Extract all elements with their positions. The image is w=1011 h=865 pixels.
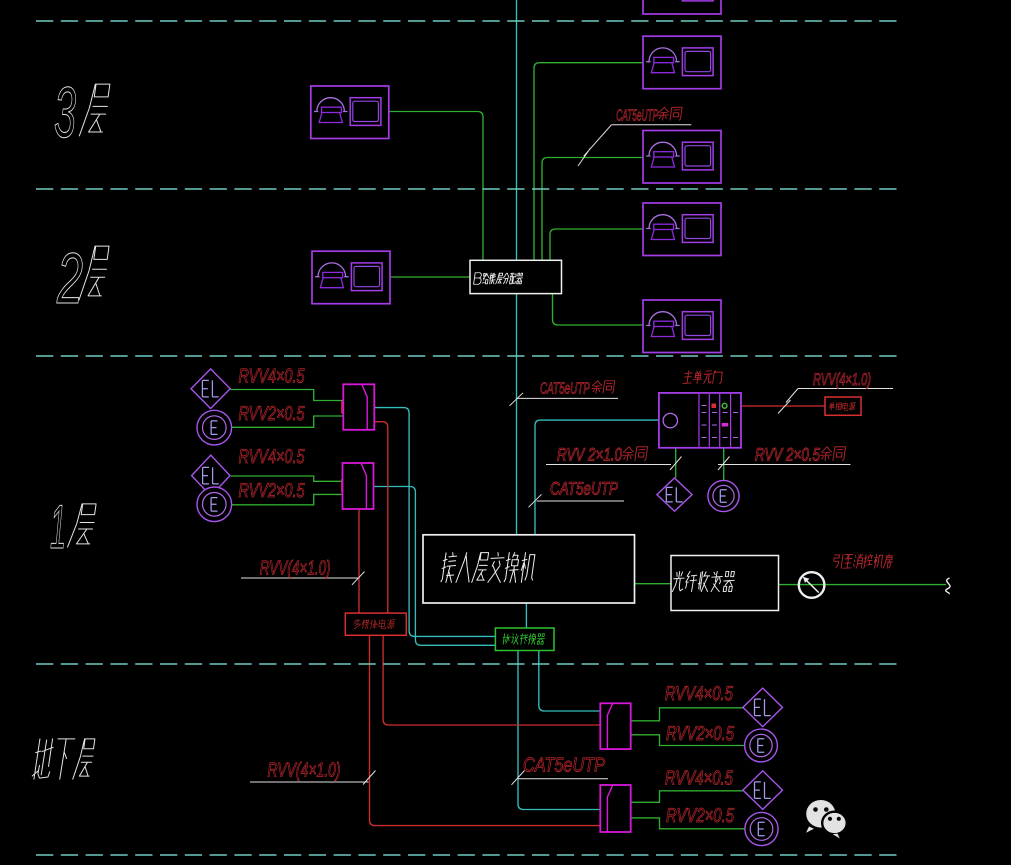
wire red media power box to basement box B1 <box>383 635 600 725</box>
svg-text:1: 1 <box>50 493 66 562</box>
wire red media power box to basement box B2 <box>370 635 601 825</box>
svg-text:RVV2×0.5: RVV2×0.5 <box>239 403 306 425</box>
svg-text:CAT5eUTP: CAT5eUTP <box>540 381 590 398</box>
outlet R2 (phone + data socket) <box>643 36 721 88</box>
junction box J1 <box>343 384 374 430</box>
leader for RVV(4x1.0) door label <box>778 389 893 414</box>
power box S1 (single phase power) <box>825 397 861 415</box>
svg-text:RVV(4×1.0): RVV(4×1.0) <box>268 760 341 782</box>
leader for RVV(4x1.0) 1F label <box>241 572 365 585</box>
distributor box U1 (B road floor distributor) <box>470 260 562 293</box>
svg-text:2: 2 <box>56 239 83 319</box>
red stub at J1 left <box>341 401 343 414</box>
wire cyan from door station U2 to switch box <box>535 420 659 535</box>
svg-text:3: 3 <box>54 73 76 153</box>
svg-text:RVV4×0.5: RVV4×0.5 <box>665 767 734 789</box>
leader for CAT5eUTP label 1F trunk <box>510 393 619 406</box>
svg-text:CAT5eUTP: CAT5eUTP <box>550 479 618 499</box>
junction box J2 <box>343 463 374 509</box>
access layer switch box U3 <box>423 535 635 603</box>
wire green EL2 to junction box J2 <box>231 476 343 481</box>
svg-text:RVV4×0.5: RVV4×0.5 <box>239 366 306 388</box>
label main unit door <box>683 371 693 384</box>
wire red junction box J2 down to media power box M1 <box>358 509 360 613</box>
wire cyan switch box to protocol converter <box>525 603 527 628</box>
floor separator dashed line 5 <box>36 854 900 856</box>
wire red door station to power box S1 <box>741 405 825 407</box>
svg-text:RVV4×0.5: RVV4×0.5 <box>239 446 306 468</box>
E symbol C4 <box>745 729 778 762</box>
floor separator dashed line 1 <box>36 20 900 22</box>
svg-text:CAT5eUTP: CAT5eUTP <box>523 755 606 777</box>
EL symbol D4 <box>743 688 783 727</box>
leader for CAT5eUTP label 1F door wire <box>529 494 625 507</box>
wire green E1 to junction box J1 <box>232 416 343 427</box>
svg-text:RVV 2×1.0: RVV 2×1.0 <box>557 445 622 465</box>
wire green switch box to fiber transceiver <box>635 583 672 585</box>
wire green basement box B2 to E5 <box>631 818 745 829</box>
wire cyan protocol converter to basement box B2 <box>518 651 600 810</box>
fiber transceiver box U4 <box>671 556 779 611</box>
E symbol C1 <box>197 410 232 445</box>
svg-text:RVV2×0.5: RVV2×0.5 <box>239 480 306 502</box>
3F outlet (phone + data socket) <box>311 86 389 139</box>
leader for CAT5eUTP basement label <box>512 771 609 785</box>
wire green outlet 3F to distributor <box>389 112 483 261</box>
wire green distributor up to outlet R4 <box>550 229 643 260</box>
svg-text:RVV4×0.5: RVV4×0.5 <box>665 683 734 705</box>
wire cyan from junction box J2 down to protocol converter <box>374 487 495 646</box>
wire green door station to EL3 <box>675 448 677 478</box>
E symbol C2 <box>197 487 232 522</box>
outlet R3 (phone + data socket) <box>643 131 721 184</box>
wire central cyan riser trunk <box>516 0 518 535</box>
floor separator dashed line 2 <box>36 188 900 190</box>
leader for RVV 2x1.0 label <box>546 457 682 471</box>
wire red junction box J1 down to media power box M1 <box>374 422 388 613</box>
leader for RVV 2x0.5 label <box>718 457 851 471</box>
wire green EL1 to junction box J1 <box>231 390 344 401</box>
wire green fiber transceiver to attenuator circle <box>779 584 947 586</box>
wire green E2 to junction box J2 <box>232 494 343 504</box>
svg-text:RVV 2×0.5: RVV 2×0.5 <box>755 445 821 465</box>
wire cyan protocol converter to basement box B1 <box>539 651 601 712</box>
WeChat logo watermark <box>806 800 847 839</box>
svg-text:CAT5eUTP: CAT5eUTP <box>616 108 658 125</box>
E symbol C3 <box>708 480 739 511</box>
media power box M1 <box>345 613 406 635</box>
floor separator dashed line 4 <box>36 663 900 665</box>
2F outlet (phone + data socket) <box>312 251 390 304</box>
svg-text:RVV2×0.5: RVV2×0.5 <box>666 723 735 745</box>
EL symbol D5 <box>743 771 783 810</box>
outlet R5 (phone + data socket) <box>643 300 721 353</box>
floor label basement <box>32 739 55 779</box>
wire green distributor down to outlet R5 <box>553 294 644 325</box>
wire cyan from junction box J1 down to protocol converter <box>374 408 495 637</box>
E symbol C5 <box>745 812 778 845</box>
basement junction box B2 <box>600 785 630 832</box>
cable break squiggle <box>946 578 950 594</box>
wire green door station to E3 <box>723 448 725 481</box>
attenuator circle on fiber link <box>799 572 825 598</box>
red stub at J2 left <box>341 479 343 492</box>
svg-text:RVV(4×1.0): RVV(4×1.0) <box>813 370 871 389</box>
protocol converter box U5 <box>495 628 554 651</box>
EL symbol D1 <box>191 369 230 409</box>
EL symbol D2 <box>192 455 230 496</box>
leader for RVV(4x1.0) basement label <box>250 771 376 785</box>
top partial outlet R1 (phone + data socket) <box>643 0 721 14</box>
svg-text:RVV2×0.5: RVV2×0.5 <box>666 805 735 827</box>
leader for CAT5eUTP label 2F <box>578 125 691 166</box>
wire green distributor up to outlet R3 <box>542 158 644 261</box>
wire green basement box B1 to EL4 <box>631 708 743 721</box>
label to fire control room <box>833 554 843 568</box>
wire green outlet 2F to distributor <box>390 276 471 278</box>
wire green basement box B2 to EL5 <box>631 791 743 803</box>
basement junction box B1 <box>600 703 630 749</box>
wire green basement box B1 to E4 <box>631 735 745 746</box>
EL symbol D3 <box>657 478 692 511</box>
outlet R4 (phone + data socket) <box>643 203 721 256</box>
wire green distributor up to outlet R2 <box>534 63 643 261</box>
door station U2 (main unit door) <box>659 393 741 448</box>
svg-text:RVV(4×1.0): RVV(4×1.0) <box>260 558 331 580</box>
floor separator dashed line 3 <box>36 355 900 357</box>
